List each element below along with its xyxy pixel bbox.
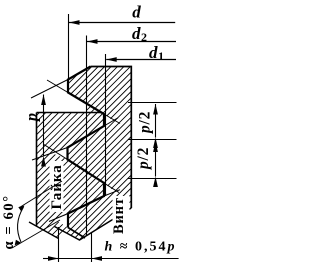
svg-text:h ≈ 0,54p: h ≈ 0,54p	[105, 240, 177, 255]
alpha angle line A (upper)	[20, 181, 63, 208]
nut tooth sharp apex n1 thin lines	[104, 114, 120, 124]
dimension line d2	[87, 41, 176, 43]
extension line of d2 (pitch line)	[86, 36, 88, 236]
thin extension of flank S1 through apex1	[31, 80, 68, 99]
dimension p (pitch)	[43, 95, 45, 157]
p/2 extension line 1	[128, 102, 177, 104]
thread profile zigzag (thick outline)	[68, 67, 105, 228]
nut bottom edge	[29, 222, 59, 239]
svg-text:1: 1	[158, 49, 164, 63]
nut left edge	[36, 113, 38, 227]
label Гайка	[49, 164, 65, 209]
p/2 extension line 2	[128, 139, 177, 141]
svg-text:d: d	[149, 43, 158, 62]
h dimension extension line right	[91, 232, 93, 262]
h dimension line with outside arrows	[43, 258, 59, 260]
p/2 extension line 3	[128, 178, 177, 180]
nut body (Гайка) hatched section	[37, 113, 105, 239]
svg-text:d: d	[132, 3, 141, 22]
svg-text:Винт: Винт	[111, 197, 127, 234]
thin extension of flank S3 (lower p reference)	[32, 148, 68, 161]
svg-text:p/2: p/2	[137, 111, 154, 135]
dimension line d1	[106, 59, 176, 61]
svg-text:d: d	[132, 24, 141, 43]
label alpha = 60deg	[1, 194, 17, 249]
screw bottom break (V cut)	[55, 208, 132, 240]
nut top face	[37, 112, 103, 114]
extension line of d (major diameter)	[68, 14, 70, 80]
dimension line d	[69, 22, 175, 24]
h dimension extension line left	[58, 227, 60, 262]
white clearance wedge at screw apex2	[53, 148, 68, 160]
alpha angle line B (lower)	[12, 220, 60, 248]
label p/2 lower	[135, 147, 152, 171]
screw body (Винт) hatched section	[55, 67, 132, 241]
thin extension of flank S2 at apex1	[47, 80, 68, 93]
svg-text:p: p	[24, 113, 41, 123]
screw last flank S6	[68, 228, 85, 239]
white clearance wedge at nut apex n2	[104, 183, 112, 196]
alpha angle arc	[18, 207, 24, 242]
dimension p/2 upper	[155, 104, 157, 138]
svg-text:p/2: p/2	[135, 147, 152, 171]
extension line of d1 (minor diameter)	[105, 54, 107, 196]
dimension p/2 lower	[155, 142, 157, 177]
svg-text:2: 2	[141, 30, 147, 44]
svg-text:Гайка: Гайка	[49, 164, 65, 209]
nut tooth sharp apex n2 thin lines	[104, 183, 119, 193]
label band Гайка (clear)	[50, 161, 64, 212]
screw apex3 thin extension	[49, 214, 68, 222]
hatched wedge of nut above face right of pitch line	[86, 104, 104, 115]
label p/2 upper	[137, 111, 154, 135]
white clearance wedge at nut apex n1	[104, 114, 112, 126]
screw top cut edge	[91, 67, 132, 209]
svg-text:α = 60°: α = 60°	[1, 194, 17, 249]
thin extension of flank S4 at apex2	[44, 145, 68, 160]
label Винт	[111, 197, 127, 234]
white clearance wedge at screw apex3	[57, 214, 69, 228]
label band Винт (clear)	[113, 196, 130, 233]
